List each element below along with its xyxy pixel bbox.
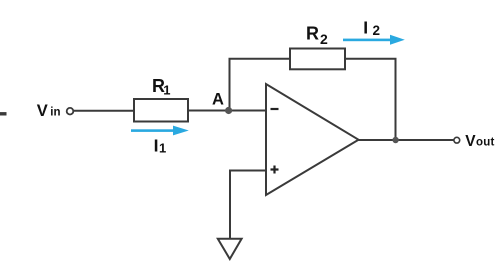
svg-text:2: 2 xyxy=(373,23,381,38)
svg-text:V: V xyxy=(465,133,476,150)
svg-text:R: R xyxy=(306,24,319,44)
svg-text:1: 1 xyxy=(163,83,170,98)
svg-text:out: out xyxy=(476,137,494,149)
svg-text:V: V xyxy=(37,102,48,120)
svg-text:A: A xyxy=(212,91,224,109)
svg-text:I: I xyxy=(154,136,159,156)
svg-text:1: 1 xyxy=(159,140,166,155)
svg-text:in: in xyxy=(50,106,60,118)
svg-text:2: 2 xyxy=(320,31,328,47)
svg-text:I: I xyxy=(363,18,368,38)
